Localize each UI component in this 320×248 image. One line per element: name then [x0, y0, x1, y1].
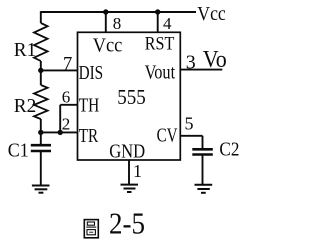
svg-text:6: 6	[62, 88, 70, 107]
svg-text:2: 2	[62, 115, 70, 134]
svg-text:C1: C1	[8, 140, 29, 162]
node junction R1/R2/DIS	[38, 68, 43, 73]
wire pin 8 stub	[105, 12, 107, 32]
ground (C1)	[32, 186, 50, 193]
node junction rail/TR	[38, 130, 43, 135]
capacitor C1	[31, 145, 51, 185]
svg-text:R2: R2	[14, 95, 37, 117]
svg-text:555: 555	[117, 85, 146, 109]
svg-text:4: 4	[163, 14, 172, 33]
svg-text:8: 8	[113, 14, 122, 33]
wire TH-TR link	[59, 105, 61, 133]
node junction at pin 8	[103, 9, 108, 14]
wire Vcc top rail	[41, 11, 196, 13]
svg-text:3: 3	[186, 51, 196, 73]
wire left rail top	[40, 11, 42, 23]
svg-text:2-5: 2-5	[109, 207, 145, 241]
wire pin 7 DIS	[41, 69, 78, 71]
wire pin 6 TH	[60, 104, 77, 106]
wire pin 2 TR	[41, 131, 78, 133]
svg-text:1: 1	[133, 161, 142, 181]
svg-text:TR: TR	[79, 125, 99, 147]
svg-text:7: 7	[63, 54, 72, 74]
wire pin 5 CV	[180, 136, 202, 149]
wire pin 3 Vout	[180, 69, 222, 71]
caption figure glyph 圖 (drawn)	[84, 220, 98, 238]
wire pin 4 stub	[157, 12, 159, 32]
ground (C2)	[195, 185, 213, 193]
svg-text:C2: C2	[219, 139, 239, 161]
node junction at pin 4	[155, 9, 160, 14]
node junction link/TR	[58, 130, 63, 135]
ground (pin 1)	[121, 185, 139, 192]
svg-text:DIS: DIS	[79, 62, 104, 84]
svg-text:Vcc: Vcc	[93, 35, 123, 57]
svg-text:GND: GND	[109, 141, 145, 163]
svg-text:5: 5	[185, 114, 194, 134]
svg-text:TH: TH	[79, 94, 100, 116]
svg-text:Vcc: Vcc	[197, 3, 226, 25]
resistor R1	[34, 23, 48, 70]
svg-text:CV: CV	[157, 125, 178, 147]
svg-text:Vo: Vo	[203, 46, 227, 73]
resistor R2	[34, 70, 48, 144]
wire pin 1 GND stub	[128, 160, 130, 185]
svg-text:Vout: Vout	[145, 61, 176, 83]
svg-text:RST: RST	[145, 33, 175, 54]
IC 555 body U1	[78, 32, 181, 160]
svg-text:R1: R1	[14, 39, 37, 61]
capacitor C2	[192, 149, 213, 184]
